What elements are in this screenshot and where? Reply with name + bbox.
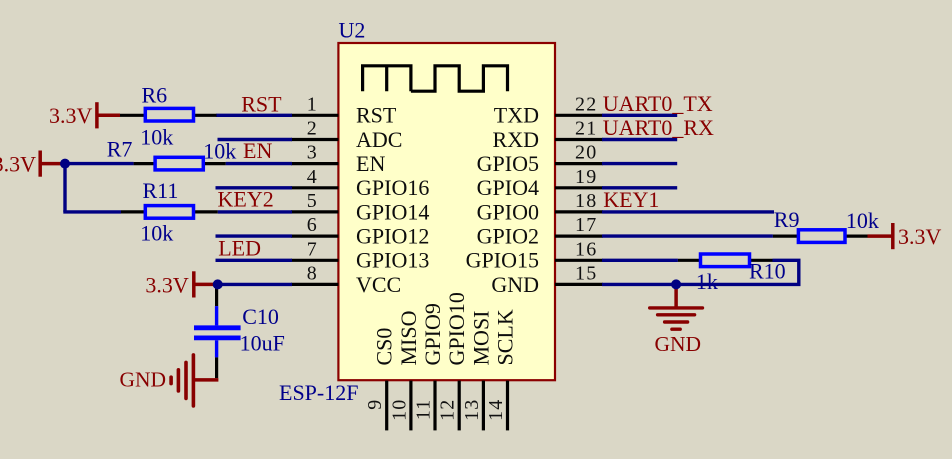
svg-text:MISO: MISO bbox=[396, 310, 421, 365]
pin 8 bbox=[291, 283, 338, 286]
svg-text:GPIO16: GPIO16 bbox=[356, 175, 429, 200]
pin 18 bbox=[555, 210, 603, 213]
resistor R7 bbox=[134, 157, 226, 170]
pin 21 bbox=[555, 138, 603, 141]
svg-text:GPIO0: GPIO0 bbox=[477, 199, 539, 224]
wire R7 to pin3 EN bbox=[226, 162, 292, 165]
svg-text:3.3V: 3.3V bbox=[145, 272, 189, 297]
svg-text:22: 22 bbox=[575, 93, 597, 115]
pin 11 bbox=[433, 381, 436, 431]
wire R11 to pin5 KEY2 bbox=[218, 210, 292, 213]
svg-text:EN: EN bbox=[356, 151, 385, 176]
pin 14 bbox=[506, 381, 509, 431]
svg-text:GPIO13: GPIO13 bbox=[356, 248, 429, 273]
ground symbol at pin15 bbox=[650, 284, 703, 329]
svg-text:1k: 1k bbox=[696, 269, 718, 294]
IC U2 body bbox=[338, 43, 555, 380]
wire R10 right down to GND net bbox=[773, 260, 799, 284]
svg-text:3.3V: 3.3V bbox=[898, 224, 942, 249]
junction node EN branch bbox=[60, 159, 70, 169]
pin 17 bbox=[555, 235, 603, 238]
pin 15 bbox=[555, 283, 603, 286]
svg-text:C10: C10 bbox=[242, 304, 279, 329]
resistor R6 bbox=[119, 108, 217, 121]
svg-text:20: 20 bbox=[575, 142, 597, 164]
svg-text:GPIO15: GPIO15 bbox=[466, 248, 539, 273]
svg-text:6: 6 bbox=[307, 214, 318, 236]
pin 4 bbox=[291, 186, 338, 189]
svg-text:19: 19 bbox=[575, 166, 597, 188]
svg-text:ESP-12F: ESP-12F bbox=[279, 380, 358, 405]
svg-text:2: 2 bbox=[307, 118, 318, 140]
svg-text:GPIO10: GPIO10 bbox=[444, 292, 469, 365]
wire to R11 left bbox=[63, 210, 121, 213]
power port 3.3V at R9 bbox=[868, 223, 893, 249]
svg-text:18: 18 bbox=[575, 190, 597, 212]
svg-text:7: 7 bbox=[307, 238, 318, 260]
svg-text:21: 21 bbox=[575, 118, 597, 140]
svg-text:TXD: TXD bbox=[494, 103, 539, 128]
svg-text:SCLK: SCLK bbox=[493, 309, 518, 365]
svg-text:UART0_RX: UART0_RX bbox=[603, 115, 714, 140]
ground symbol at C10 (rotated) bbox=[171, 355, 218, 406]
svg-text:RST: RST bbox=[241, 91, 282, 116]
svg-text:3.3V: 3.3V bbox=[0, 152, 36, 177]
wire pin15 GND net bbox=[602, 283, 801, 286]
svg-text:9: 9 bbox=[364, 399, 386, 410]
svg-text:8: 8 bbox=[307, 262, 318, 284]
svg-text:GPIO14: GPIO14 bbox=[356, 199, 429, 224]
svg-text:3.3V: 3.3V bbox=[49, 103, 93, 128]
resistor R10 bbox=[678, 254, 773, 267]
svg-text:R7: R7 bbox=[107, 137, 133, 162]
junction node GND/pin15 bbox=[671, 279, 681, 289]
svg-text:R11: R11 bbox=[143, 178, 179, 203]
junction node VCC/C10 bbox=[213, 279, 223, 289]
pin 7 bbox=[291, 259, 338, 262]
pin 10 bbox=[409, 381, 412, 431]
svg-text:GPIO5: GPIO5 bbox=[477, 151, 539, 176]
power port 3.3V at EN/R7 branch bbox=[40, 151, 66, 177]
svg-text:R9: R9 bbox=[774, 207, 800, 232]
capacitor C10 bbox=[194, 288, 241, 378]
svg-text:17: 17 bbox=[575, 214, 597, 236]
pin 1 bbox=[291, 114, 338, 117]
svg-text:GND: GND bbox=[491, 272, 539, 297]
pin 5 bbox=[291, 210, 338, 213]
svg-text:VCC: VCC bbox=[356, 272, 401, 297]
power port 3.3V at VCC bbox=[194, 271, 214, 297]
pin 2 bbox=[291, 138, 338, 141]
wire pin7 LED bbox=[216, 259, 293, 262]
pin 20 bbox=[555, 162, 603, 165]
svg-text:R6: R6 bbox=[142, 82, 168, 107]
svg-text:GND: GND bbox=[120, 367, 167, 391]
svg-text:ADC: ADC bbox=[356, 127, 402, 152]
svg-text:GPIO2: GPIO2 bbox=[477, 224, 539, 249]
svg-text:KEY1: KEY1 bbox=[603, 187, 659, 212]
wire pin21 UART0_RX bbox=[602, 138, 677, 141]
pin 13 bbox=[482, 381, 485, 431]
svg-text:1: 1 bbox=[307, 93, 318, 115]
wire pin17 to R9 bbox=[602, 234, 773, 237]
pin 12 bbox=[458, 381, 461, 431]
power port 3.3V at pin1 RST pull-up bbox=[97, 102, 120, 128]
pin 19 bbox=[555, 186, 603, 189]
svg-text:10: 10 bbox=[388, 399, 410, 421]
svg-text:RXD: RXD bbox=[493, 127, 539, 152]
svg-text:U2: U2 bbox=[339, 18, 366, 43]
svg-text:UART0_TX: UART0_TX bbox=[603, 91, 713, 116]
svg-text:CS0: CS0 bbox=[372, 328, 397, 366]
svg-text:10uF: 10uF bbox=[240, 331, 285, 356]
wire pin19 (dangling) bbox=[602, 186, 677, 189]
svg-text:12: 12 bbox=[437, 399, 459, 421]
wire pin16 to R10 bbox=[602, 259, 678, 262]
svg-text:GPIO9: GPIO9 bbox=[420, 303, 445, 365]
wire pin18 KEY1 bbox=[602, 210, 774, 213]
svg-text:KEY2: KEY2 bbox=[218, 187, 274, 212]
svg-text:MOSI: MOSI bbox=[468, 310, 493, 365]
wire net RST (pin1) bbox=[216, 114, 292, 117]
svg-text:LED: LED bbox=[218, 235, 261, 260]
svg-text:3: 3 bbox=[307, 142, 318, 164]
svg-text:10k: 10k bbox=[203, 138, 236, 163]
svg-text:16: 16 bbox=[575, 238, 597, 260]
pin 22 bbox=[555, 114, 603, 117]
svg-text:13: 13 bbox=[461, 399, 483, 421]
wire pin20 (dangling) bbox=[602, 162, 677, 165]
svg-text:10k: 10k bbox=[140, 125, 173, 150]
svg-text:GPIO4: GPIO4 bbox=[477, 175, 539, 200]
pin 3 bbox=[291, 162, 338, 165]
svg-text:15: 15 bbox=[575, 262, 597, 284]
svg-text:10k: 10k bbox=[140, 221, 173, 246]
wire 3.3V to R7 (pin3 net) bbox=[65, 162, 134, 165]
wire 3.3V branch down to R11 bbox=[63, 162, 66, 212]
wire net ADC (pin2, dangling) bbox=[218, 138, 293, 141]
pin 16 bbox=[555, 259, 603, 262]
svg-text:4: 4 bbox=[307, 166, 318, 188]
svg-text:EN: EN bbox=[243, 138, 272, 163]
wire pin4 (dangling) bbox=[216, 186, 293, 189]
resistor R11 bbox=[121, 206, 218, 219]
wire 3.3V to pin8 VCC bbox=[218, 283, 292, 286]
svg-text:GPIO12: GPIO12 bbox=[356, 224, 429, 249]
svg-text:10k: 10k bbox=[846, 208, 879, 233]
svg-text:5: 5 bbox=[307, 190, 318, 212]
U2 antenna meander graphic bbox=[363, 66, 508, 91]
pin 9 bbox=[385, 381, 388, 431]
svg-text:14: 14 bbox=[485, 399, 507, 421]
wire pin22 UART0_TX bbox=[602, 114, 677, 117]
resistor R9 bbox=[773, 230, 868, 243]
svg-text:RST: RST bbox=[356, 103, 397, 128]
svg-text:GND: GND bbox=[655, 332, 702, 356]
wire pin6 (dangling) bbox=[216, 234, 293, 237]
svg-text:11: 11 bbox=[413, 399, 435, 421]
pin 6 bbox=[291, 235, 338, 238]
svg-text:R10: R10 bbox=[749, 258, 786, 283]
